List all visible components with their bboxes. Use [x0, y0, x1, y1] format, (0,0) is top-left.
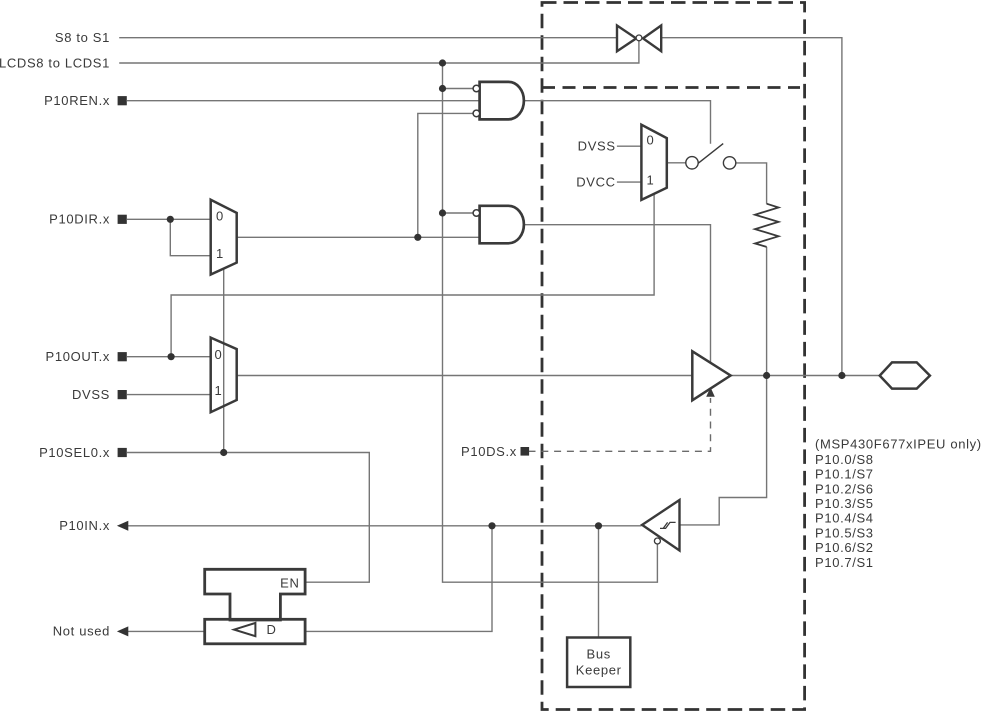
switch S1 throw circle: [723, 157, 735, 169]
svg-text:(MSP430F677xIPEU only): (MSP430F677xIPEU only): [815, 436, 982, 451]
node LCDS8 bus junction: [439, 59, 446, 66]
wire mux M2 output to output driver: [237, 375, 693, 377]
arrow Not used output: [117, 626, 128, 636]
wire Not used from latch: [128, 630, 205, 632]
node P10OUT branch junction: [168, 353, 175, 360]
wire mux M3 select to P10OUT node: [171, 194, 654, 357]
wire resistor R1 bottom to pad net: [766, 247, 768, 376]
wire U2 top input branch: [443, 212, 474, 214]
terminal P10DS.x square: [521, 447, 530, 456]
pad hexagon: [880, 362, 930, 388]
node P10DIR branch junction: [167, 216, 174, 223]
wire LCDS8 vertical bus to Schmitt enable bubble: [443, 63, 658, 582]
wire driver output to pad: [731, 375, 879, 377]
svg-text:P10.2/S6: P10.2/S6: [815, 481, 874, 496]
wire latch D input from P10IN net: [306, 526, 492, 632]
wire U2 output to output driver enable: [525, 225, 711, 364]
wire DVCC to mux M3 input 1: [617, 181, 642, 183]
wire U1 output to switch control: [525, 101, 711, 144]
gate U2 (2-input AND, body): [480, 206, 524, 244]
wire select P10SEL0 vertical through mux M2: [223, 269, 225, 453]
svg-text:1: 1: [215, 383, 223, 398]
svg-text:1: 1: [647, 173, 655, 188]
terminal P10DIR.x square: [118, 215, 127, 224]
node U1 top input junction: [439, 85, 446, 92]
node U1 bottom branch junction: [414, 234, 421, 241]
terminal DVSS square: [118, 390, 127, 399]
svg-text:P10SEL0.x: P10SEL0.x: [39, 445, 110, 460]
wire switch to resistor R1 top: [736, 163, 767, 204]
svg-text:P10REN.x: P10REN.x: [44, 93, 110, 108]
wire S8-to-S1 left segment: [119, 37, 617, 39]
Schmitt enable bubble: [654, 538, 660, 544]
wire DVSS to mux M3 input 0: [617, 145, 642, 147]
mux M3 (DVSS/DVCC pull select): [641, 125, 666, 200]
node S8 wire/pad junction: [838, 372, 845, 379]
switch S1 blade: [698, 144, 723, 164]
mux M2 (P10OUT/DVSS select): [211, 338, 237, 413]
bus keeper box: [567, 638, 630, 688]
switch S1 pole circle: [686, 157, 698, 169]
arrow P10IN.x output: [117, 521, 128, 531]
output driver buffer U3: [692, 351, 730, 400]
inner dashed separator line: [542, 86, 800, 89]
analog switch T1 right triangle: [643, 26, 661, 52]
mux M1 (P10DIR select): [211, 200, 237, 275]
wire DVSS to mux M2 input 1: [127, 394, 211, 396]
node P10SEL0 select junction: [220, 449, 227, 456]
svg-text:DVSS: DVSS: [578, 139, 616, 154]
svg-text:P10.4/S4: P10.4/S4: [815, 511, 874, 526]
gate U2 top input bubble: [473, 210, 480, 217]
svg-text:DVCC: DVCC: [576, 175, 615, 190]
gate U1 (3-input AND, body): [480, 82, 524, 120]
wire branch to U1 bottom input: [418, 113, 473, 237]
svg-text:P10.1/S7: P10.1/S7: [815, 467, 874, 482]
svg-text:P10.0/S8: P10.0/S8: [815, 452, 874, 467]
svg-text:Not used: Not used: [53, 624, 110, 639]
svg-text:0: 0: [216, 209, 224, 224]
svg-text:P10.6/S2: P10.6/S2: [815, 540, 874, 555]
latch D section outline: [205, 619, 305, 644]
wire LCDS8 line to bowtie control: [119, 41, 639, 63]
svg-text:DVSS: DVSS: [72, 387, 110, 402]
node latch D junction: [488, 522, 495, 529]
wire U1 top input branch: [443, 88, 474, 90]
svg-text:0: 0: [647, 133, 655, 148]
svg-text:P10.5/S3: P10.5/S3: [815, 525, 874, 540]
svg-text:P10DS.x: P10DS.x: [461, 444, 517, 459]
svg-text:1: 1: [216, 246, 224, 261]
gate U1 top input bubble: [473, 85, 480, 92]
svg-text:Bus: Bus: [587, 647, 611, 662]
terminal P10OUT.x square: [118, 352, 127, 361]
svg-text:D: D: [267, 622, 277, 637]
wire mux M1 output to U2 bottom input: [237, 236, 480, 238]
svg-text:P10OUT.x: P10OUT.x: [46, 349, 110, 364]
wire P10IN.x from Schmitt output: [128, 525, 642, 527]
latch clock triangle: [234, 623, 255, 636]
arrow drive-strength (up into driver): [706, 387, 715, 397]
wire P10DIR.x to mux M1 input 0: [127, 218, 211, 220]
terminal P10SEL0.x square: [118, 448, 127, 457]
outer dashed module border: [542, 3, 805, 710]
svg-text:0: 0: [215, 347, 223, 362]
analog switch T1 (bowtie) left triangle: [617, 26, 636, 52]
svg-text:P10DIR.x: P10DIR.x: [49, 212, 110, 227]
svg-text:P10.3/S5: P10.3/S5: [815, 496, 874, 511]
terminal P10REN.x square: [118, 96, 127, 105]
Schmitt hysteresis glyph: [660, 522, 676, 528]
wire pad net down to Schmitt input: [680, 376, 767, 525]
wire mux M3 output to switch: [667, 162, 686, 164]
resistor R1: [755, 204, 779, 247]
node bus keeper junction: [595, 522, 602, 529]
svg-text:S8 to S1: S8 to S1: [55, 30, 110, 45]
analog switch T1 control bubble: [636, 35, 642, 41]
latch EN section outline: [205, 569, 305, 620]
gate U1 bottom input bubble: [473, 110, 480, 117]
input Schmitt buffer U4: [642, 500, 679, 551]
wire S8-to-S1 right segment to pad net: [661, 38, 842, 376]
wire P10SEL0.x to latch EN: [127, 453, 369, 583]
wire P10REN.x to U1 middle input: [127, 100, 480, 102]
wire bus keeper to P10IN net: [598, 526, 600, 638]
node resistor/pad junction: [763, 372, 770, 379]
svg-text:P10.7/S1: P10.7/S1: [815, 555, 874, 570]
svg-text:P10IN.x: P10IN.x: [59, 518, 110, 533]
svg-text:LCDS8 to LCDS1: LCDS8 to LCDS1: [0, 55, 110, 70]
node U2 top input junction: [439, 209, 446, 216]
wire P10OUT.x to mux M2 input 0: [127, 356, 211, 358]
wire P10DIR.x branch to mux M1 input 1: [170, 219, 210, 255]
svg-text:Keeper: Keeper: [576, 663, 622, 678]
dashed wire P10DS.x to driver strength arrow: [529, 398, 711, 451]
svg-text:EN: EN: [280, 576, 299, 591]
